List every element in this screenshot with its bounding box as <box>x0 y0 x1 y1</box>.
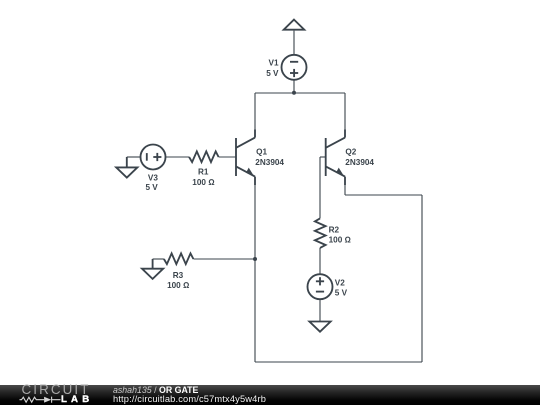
LAB logo word <box>61 395 93 405</box>
CircuitLab logo glyph (resistor + diode) <box>19 395 63 405</box>
ground (V2) <box>309 322 330 332</box>
svg-text:R3: R3 <box>173 271 184 280</box>
svg-text:100 Ω: 100 Ω <box>167 281 189 290</box>
wire flag to V1 <box>293 31 295 55</box>
wire R3 to emitter column <box>194 258 256 260</box>
voltage source V2 <box>308 274 333 299</box>
svg-text:R2: R2 <box>329 226 340 235</box>
resistor R1 <box>189 151 219 162</box>
svg-text:R1: R1 <box>198 167 209 176</box>
label R2 100ohm <box>329 226 351 245</box>
resistor R2 <box>315 218 326 248</box>
wire ground to V3 <box>127 157 141 167</box>
CircuitLab logo word <box>22 383 91 396</box>
svg-text:100 Ω: 100 Ω <box>329 236 351 245</box>
voltage source V1 <box>282 55 307 80</box>
resistor R3 <box>164 253 194 264</box>
label Q1 2N3904 <box>255 148 284 167</box>
power flag (top of V1) <box>284 20 305 30</box>
footer bar <box>0 385 540 405</box>
label V3 5V <box>145 173 158 192</box>
footer line 1: author / title <box>113 386 198 395</box>
wire right rail down <box>421 195 423 362</box>
svg-text:V3: V3 <box>148 173 158 182</box>
label R3 100ohm <box>167 271 189 290</box>
wire Q1 emitter down <box>254 185 256 362</box>
wire R1 to Q1 base <box>219 156 236 158</box>
wire Q2 emitter down <box>344 185 346 195</box>
wire Q2 base stub <box>320 157 326 218</box>
svg-text:5 V: 5 V <box>145 183 158 192</box>
wire top rail down to Q1 collector <box>254 93 256 130</box>
svg-text:2N3904: 2N3904 <box>345 158 374 167</box>
label Q2 2N3904 <box>345 148 374 167</box>
transistor Q1 <box>236 130 255 186</box>
wire top rail <box>255 92 345 94</box>
wire V3 to R1 <box>166 156 190 158</box>
svg-text:Q2: Q2 <box>345 148 356 157</box>
svg-text:V2: V2 <box>335 279 345 288</box>
svg-text:5 V: 5 V <box>335 289 348 298</box>
wire V2 to ground <box>319 299 321 321</box>
svg-text:5 V: 5 V <box>266 69 279 78</box>
wire V1 to top rail <box>293 80 295 93</box>
ground (V3) <box>116 167 137 177</box>
footer line 2: url <box>113 395 266 404</box>
wire top rail down to Q2 collector <box>344 93 346 130</box>
node junction R3 wire <box>253 257 257 261</box>
label R1 100ohm <box>192 167 214 186</box>
label V1 5V <box>266 59 279 78</box>
label V2 5V <box>335 279 348 298</box>
wire ground to R3 <box>153 259 164 269</box>
svg-text:V1: V1 <box>268 59 278 68</box>
wire R2 to V2 <box>319 248 321 274</box>
svg-text:100 Ω: 100 Ω <box>192 178 214 187</box>
node junction on top rail <box>292 91 296 95</box>
ground (R3) <box>142 269 163 279</box>
wire bottom rail <box>255 361 422 363</box>
wire Q2 emitter row <box>345 194 422 196</box>
svg-text:Q1: Q1 <box>256 148 267 157</box>
svg-text:2N3904: 2N3904 <box>255 158 284 167</box>
voltage source V3 <box>141 145 166 170</box>
transistor Q2 <box>326 130 345 186</box>
